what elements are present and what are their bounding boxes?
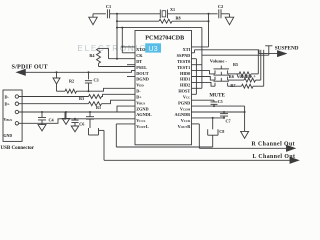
svg-text:SUSPEND: SUSPEND bbox=[275, 46, 299, 52]
svg-text:VDD: VDD bbox=[136, 83, 144, 88]
svg-text:PCM2704CDB: PCM2704CDB bbox=[145, 36, 184, 42]
svg-text:VCCR: VCCR bbox=[181, 118, 191, 123]
svg-text:CK: CK bbox=[136, 53, 143, 58]
svg-text:VBUS: VBUS bbox=[4, 117, 13, 122]
svg-text:C3: C3 bbox=[94, 77, 99, 82]
svg-text:DOUT: DOUT bbox=[136, 71, 149, 76]
svg-text:VCC: VCC bbox=[183, 94, 190, 99]
svg-text:Volume -: Volume - bbox=[210, 58, 228, 63]
svg-text:USB Connector: USB Connector bbox=[1, 146, 35, 151]
svg-text:L Channel Out: L Channel Out bbox=[253, 154, 296, 160]
svg-text:C6: C6 bbox=[79, 121, 84, 126]
svg-text:HID2: HID2 bbox=[180, 83, 190, 88]
svg-text:X1: X1 bbox=[170, 7, 175, 12]
svg-text:ZGND: ZGND bbox=[136, 106, 148, 111]
svg-text:PGND: PGND bbox=[178, 100, 190, 105]
svg-text:Volume +: Volume + bbox=[237, 75, 257, 80]
svg-text:R Channel Out: R Channel Out bbox=[252, 141, 296, 147]
svg-text:C1: C1 bbox=[106, 4, 111, 9]
svg-text:SSPND: SSPND bbox=[177, 53, 191, 58]
svg-text:C4: C4 bbox=[49, 118, 55, 123]
svg-text:R1: R1 bbox=[96, 105, 101, 110]
svg-text:TEST1: TEST1 bbox=[177, 65, 190, 70]
svg-text:R2: R2 bbox=[69, 79, 74, 84]
svg-text:C7: C7 bbox=[226, 118, 231, 123]
svg-text:R8: R8 bbox=[175, 16, 180, 21]
svg-text:C5: C5 bbox=[218, 99, 223, 104]
svg-text:R4: R4 bbox=[89, 53, 95, 58]
svg-text:DT: DT bbox=[136, 59, 142, 64]
svg-text:AGNDL: AGNDL bbox=[136, 112, 152, 117]
svg-text:D+: D+ bbox=[5, 102, 11, 107]
svg-text:PSEL: PSEL bbox=[136, 65, 147, 70]
svg-text:XTO: XTO bbox=[136, 47, 146, 52]
svg-text:C2: C2 bbox=[218, 4, 223, 9]
svg-text:GND: GND bbox=[4, 134, 13, 138]
svg-text:S/PDIF OUT: S/PDIF OUT bbox=[12, 64, 49, 71]
svg-text:HID0: HID0 bbox=[180, 71, 190, 76]
svg-text:R5: R5 bbox=[233, 62, 238, 67]
svg-text:VOUTR: VOUTR bbox=[178, 124, 192, 129]
svg-text:U3: U3 bbox=[148, 44, 157, 53]
svg-text:R7: R7 bbox=[230, 83, 235, 88]
svg-text:XTI: XTI bbox=[183, 47, 191, 52]
svg-text:R6: R6 bbox=[229, 74, 234, 79]
svg-text:VBUS: VBUS bbox=[136, 100, 145, 105]
svg-text:VOUTL: VOUTL bbox=[136, 124, 149, 129]
svg-text:DGND: DGND bbox=[136, 77, 149, 82]
svg-text:D-: D- bbox=[5, 94, 10, 99]
svg-text:TEST0: TEST0 bbox=[177, 59, 190, 64]
svg-text:MUTE: MUTE bbox=[209, 92, 225, 98]
svg-text:VCCL: VCCL bbox=[136, 118, 145, 123]
svg-text:VCOM: VCOM bbox=[180, 106, 191, 111]
svg-text:HOST: HOST bbox=[178, 88, 190, 93]
svg-text:AGNDR: AGNDR bbox=[175, 112, 192, 117]
svg-text:D-: D- bbox=[136, 88, 141, 93]
svg-text:D+: D+ bbox=[136, 94, 142, 99]
svg-text:R3: R3 bbox=[79, 96, 84, 101]
svg-text:HID1: HID1 bbox=[180, 77, 190, 82]
svg-text:C8: C8 bbox=[219, 129, 224, 134]
